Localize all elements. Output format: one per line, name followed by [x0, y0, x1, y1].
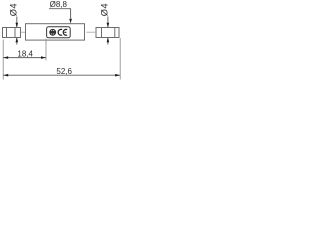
- dimension 52,6: dimension line and arrows: [3, 74, 120, 77]
- centerline axis: [21, 31, 96, 33]
- svg-text:Ø8,8: Ø8,8: [50, 0, 68, 9]
- extension line right: [119, 38, 121, 80]
- dimension 18,4: dimension line and arrows: [3, 56, 46, 59]
- extension line left: [2, 40, 4, 80]
- background: [0, 0, 128, 82]
- extension line middle: [45, 39, 47, 61]
- dimension Ø4 left: dimension line and arrows: [16, 17, 19, 45]
- svg-text:Ø4: Ø4: [9, 3, 19, 16]
- right end cap: [96, 28, 119, 38]
- CE mark: [58, 29, 67, 35]
- dimension Ø8,8: leader line and arrow: [49, 9, 72, 24]
- left end cap: [3, 28, 21, 38]
- body: [26, 24, 85, 40]
- logo: [50, 29, 56, 35]
- svg-text:Ø4: Ø4: [100, 3, 110, 16]
- dimension Ø4 right: dimension line and arrows: [107, 17, 110, 45]
- label box: [47, 27, 71, 38]
